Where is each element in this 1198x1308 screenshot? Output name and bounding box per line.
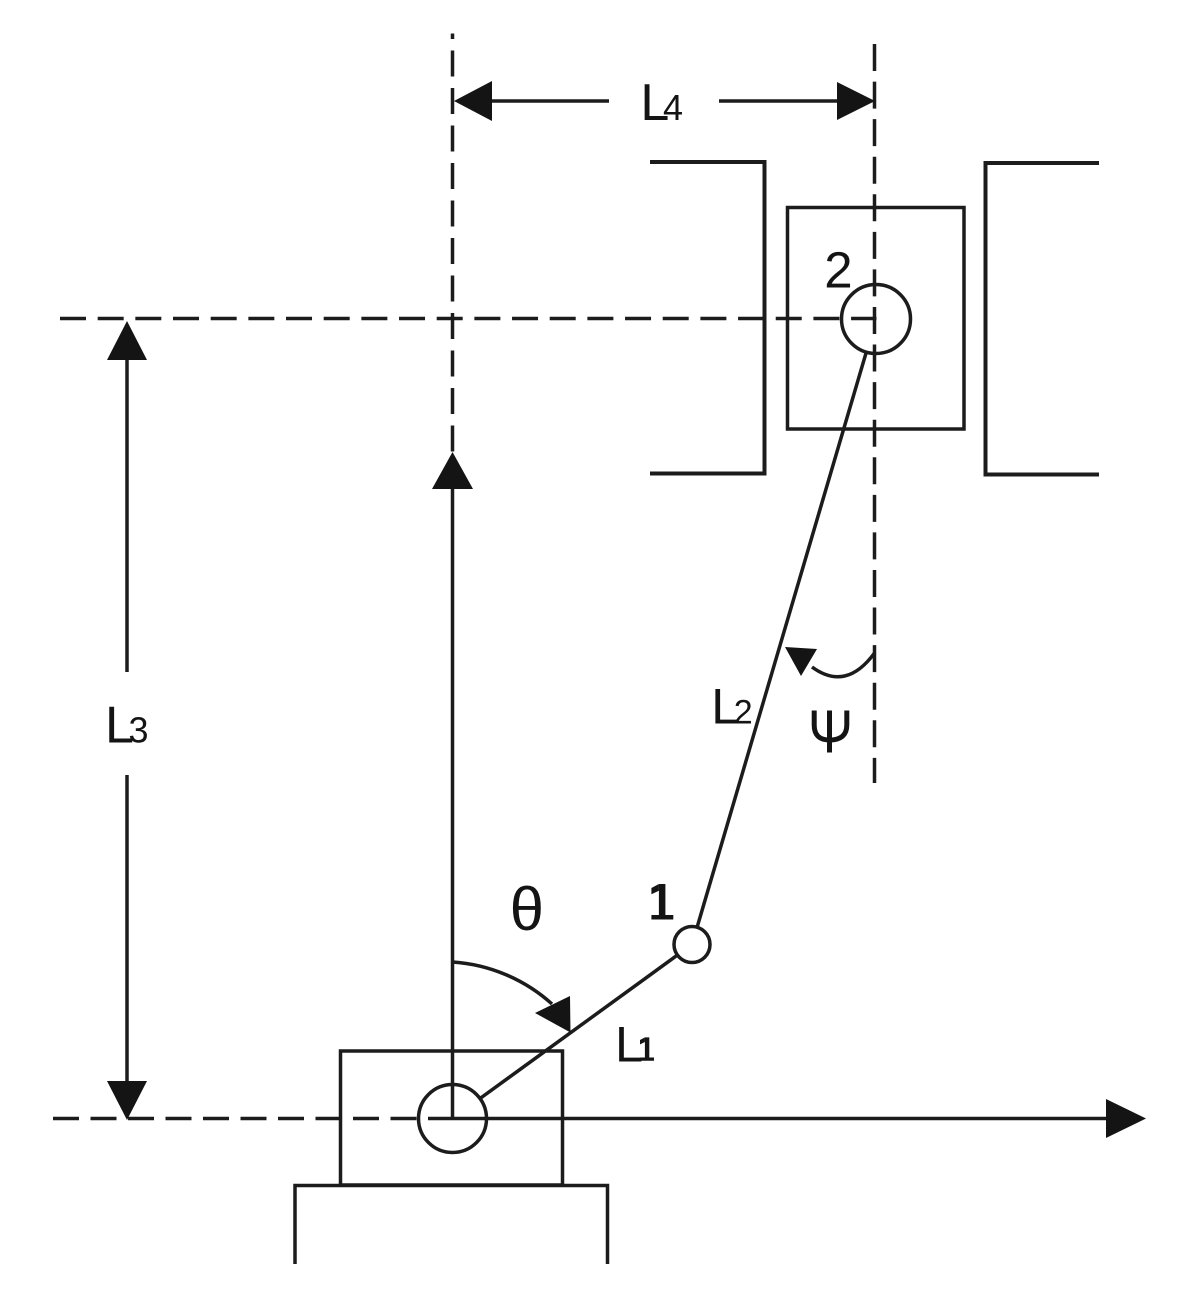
base pedestal upper block	[341, 1051, 563, 1185]
wire horizontal dashed construction line through joint 2	[60, 317, 877, 321]
wire L4 dimension line left segment	[491, 99, 609, 103]
wire x-axis	[428, 1117, 1107, 1121]
slider guide rail right	[986, 163, 1100, 475]
wire y-axis	[451, 488, 455, 1119]
joint 1 pin circle	[674, 927, 710, 963]
label node 1	[651, 884, 673, 920]
svg-text:L2: L2	[711, 678, 752, 735]
joint 2 pin circle	[842, 285, 911, 354]
label psi	[814, 711, 847, 753]
label L1 subscript 1	[640, 1037, 654, 1060]
L4 right arrowhead	[837, 82, 875, 120]
theta angle arc	[453, 962, 553, 1004]
wire vertical dashed construction line through origin axis	[451, 34, 455, 453]
psi arc arrowhead	[785, 647, 817, 676]
svg-text:L4: L4	[640, 74, 683, 132]
wire horizontal dashed construction line through origin	[53, 1117, 417, 1121]
svg-text:2: 2	[824, 242, 852, 299]
y-axis arrowhead	[432, 452, 473, 489]
wire L3 dimension line lower segment	[125, 775, 129, 1082]
origin pin circle	[419, 1085, 487, 1153]
link L2 connecting rod	[697, 352, 866, 927]
wire L4 dimension line right segment	[719, 99, 838, 103]
svg-text:L3: L3	[105, 696, 149, 754]
psi angle arc	[812, 653, 875, 677]
svg-text:θ: θ	[510, 875, 544, 944]
x-axis arrowhead	[1106, 1099, 1146, 1138]
base pedestal lower block	[295, 1186, 608, 1265]
slider block	[788, 208, 965, 430]
wire L3 dimension line upper segment	[125, 359, 129, 672]
L4 left arrowhead	[454, 81, 492, 121]
wire vertical dashed construction line through slider	[873, 44, 877, 783]
theta arc arrowhead	[535, 996, 571, 1033]
L3 bottom arrowhead	[107, 1081, 147, 1120]
link L1 crank	[480, 955, 677, 1098]
slider guide rail left	[650, 162, 765, 474]
L3 top arrowhead	[107, 321, 147, 360]
svg-text:L: L	[615, 1016, 643, 1073]
